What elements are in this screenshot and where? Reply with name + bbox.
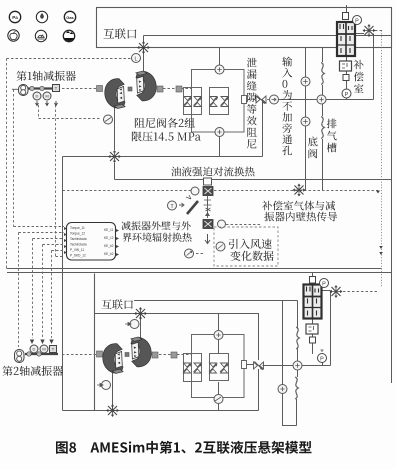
svg-text:M: M	[42, 347, 45, 352]
svg-text:Tachirotada: Tachirotada	[70, 243, 87, 247]
svg-text:P_VW_11: P_VW_11	[70, 248, 84, 252]
svg-text:KE_b2: KE_b2	[104, 252, 114, 256]
svg-text:KE_b2: KE_b2	[104, 244, 114, 248]
svg-text:Pa: Pa	[12, 15, 18, 20]
svg-text:D: D	[33, 347, 36, 352]
svg-text:D: D	[36, 94, 39, 99]
svg-text:P_SKD_12: P_SKD_12	[70, 254, 86, 258]
svg-text:Torque_11: Torque_11	[70, 226, 85, 230]
svg-text:Tachirotada: Tachirotada	[70, 237, 87, 241]
svg-text:Gas: Gas	[66, 15, 74, 20]
svg-text:KE_11: KE_11	[104, 228, 114, 232]
svg-text:L: L	[134, 57, 137, 63]
svg-text:KE_12: KE_12	[104, 236, 114, 240]
svg-text:M: M	[45, 94, 48, 99]
svg-text:Torque_12: Torque_12	[70, 232, 85, 236]
